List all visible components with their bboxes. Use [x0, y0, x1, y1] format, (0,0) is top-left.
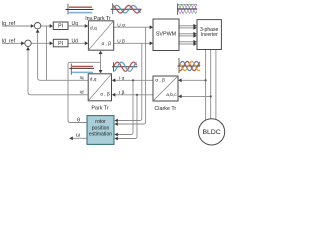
svg-text:Iq_ref: Iq_ref — [2, 21, 16, 27]
svg-text:estimation: estimation — [89, 132, 112, 138]
svg-text:d,q: d,q — [90, 26, 97, 32]
svg-text:a,b,c: a,b,c — [166, 92, 177, 98]
svg-text:I α: I α — [119, 76, 125, 82]
svg-text:Iq: Iq — [79, 75, 83, 81]
svg-text:θ: θ — [77, 117, 80, 123]
svg-text:Ud: Ud — [72, 39, 79, 45]
svg-text:ω: ω — [76, 133, 81, 139]
svg-text:position: position — [92, 125, 110, 131]
svg-text:Uq: Uq — [72, 21, 79, 27]
svg-text:Inverter: Inverter — [201, 32, 219, 38]
svg-text:α , β: α , β — [155, 78, 165, 84]
svg-text:Id_ref: Id_ref — [2, 38, 16, 44]
svg-text:α , β: α , β — [100, 92, 110, 98]
svg-text:I β: I β — [119, 90, 125, 96]
svg-text:rotor: rotor — [95, 119, 106, 125]
svg-text:SVPWM: SVPWM — [156, 32, 177, 38]
svg-text:α , β: α , β — [102, 41, 112, 47]
svg-text:d,q: d,q — [90, 77, 97, 83]
svg-text:U α: U α — [117, 22, 125, 28]
svg-text:BLDC: BLDC — [203, 129, 221, 136]
svg-text:PI: PI — [58, 41, 63, 47]
svg-text:Id: Id — [79, 90, 83, 96]
svg-text:PI: PI — [58, 24, 63, 30]
svg-text:U β: U β — [117, 39, 125, 45]
svg-text:Inv.Park Tr: Inv.Park Tr — [85, 16, 111, 22]
svg-text:Park Tr: Park Tr — [91, 105, 109, 111]
svg-text:Clarke Tr: Clarke Tr — [154, 106, 176, 112]
